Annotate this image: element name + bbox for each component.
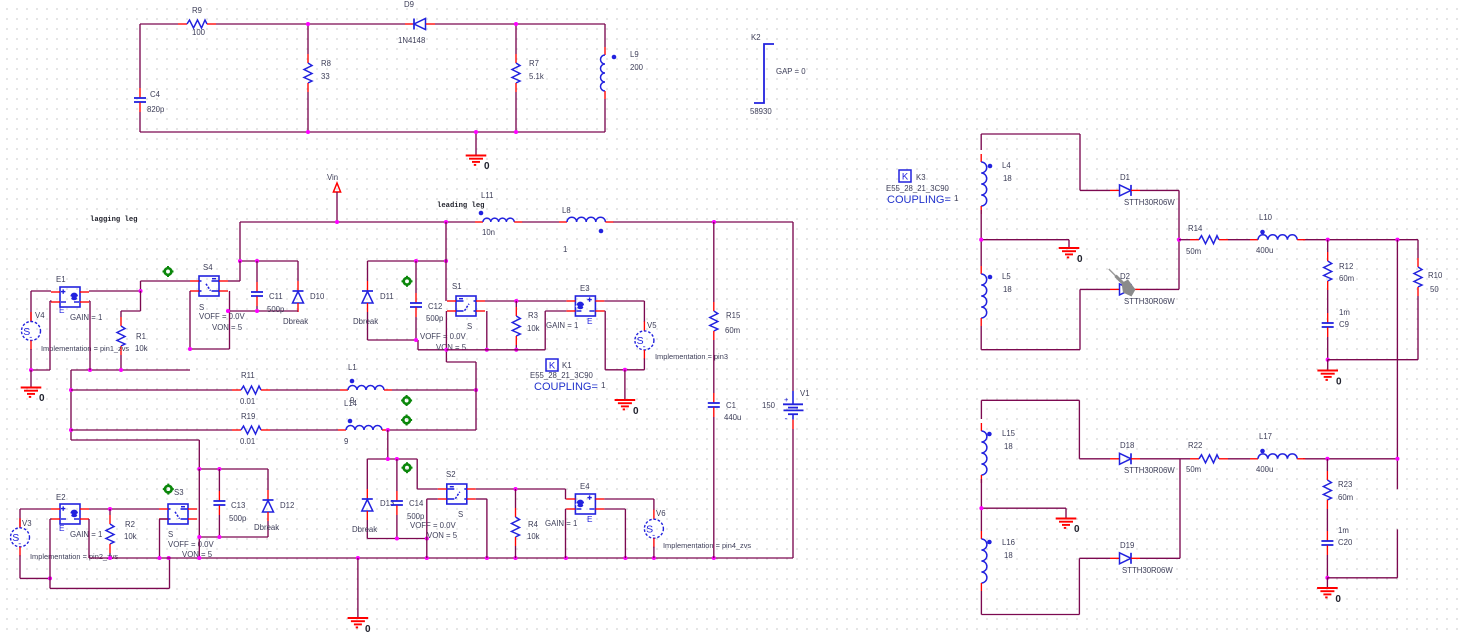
svg-text:VON = 5: VON = 5 <box>212 323 243 332</box>
junction R4 top <box>513 487 517 491</box>
svg-text:R9: R9 <box>192 6 202 15</box>
wire E1 out <box>89 290 141 292</box>
junction top-5 <box>514 130 518 134</box>
inductor L10 <box>1250 230 1305 240</box>
wire E1- down <box>50 301 52 370</box>
vsource V3 <box>11 518 30 556</box>
wire sec1 mid <box>981 210 1069 266</box>
label S1 S <box>467 322 472 331</box>
svg-text:Dbreak: Dbreak <box>352 525 377 534</box>
label S1 VOFF <box>420 332 467 341</box>
label R7 <box>529 59 539 68</box>
svg-text:C9: C9 <box>1339 320 1349 329</box>
junction L14 S2riser <box>386 428 390 432</box>
svg-text:GAIN = 1: GAIN = 1 <box>546 321 578 330</box>
svg-text:200: 200 <box>630 63 644 72</box>
wire sec2 top <box>981 400 1079 419</box>
label C13 500p <box>229 514 247 523</box>
svg-text:C20: C20 <box>1338 538 1353 547</box>
wire S3 right rail <box>198 469 200 558</box>
junction C13 bottom <box>217 535 221 539</box>
vcvs E3 <box>566 296 604 316</box>
svg-text:R8: R8 <box>321 59 331 68</box>
wire to E4 <box>565 489 568 499</box>
junction S2 cell 1 <box>386 457 390 461</box>
svg-text:L10: L10 <box>1259 213 1273 222</box>
wire V6 to bus <box>653 547 655 558</box>
wire left rail primary <box>70 370 72 440</box>
svg-text:VOFF = 0.0V: VOFF = 0.0V <box>410 521 457 530</box>
label R3 <box>528 311 538 320</box>
wire R15-C1 <box>713 340 715 393</box>
label S4 VOFF <box>199 312 246 321</box>
wire V5 to gnd <box>625 358 645 369</box>
wire E2 out row <box>89 508 159 510</box>
label 200 <box>630 63 644 72</box>
wire S4 ctrl left <box>190 291 230 349</box>
wire R2 bot <box>109 553 111 558</box>
svg-text:0: 0 <box>484 161 490 172</box>
label R22 <box>1188 441 1202 450</box>
label E1 <box>56 275 66 284</box>
svg-text:D19: D19 <box>1120 541 1134 550</box>
junction rail R19 <box>69 428 73 432</box>
junction bus S3L <box>157 556 161 560</box>
wire sec2 D18 jog <box>1079 400 1110 459</box>
label leading leg <box>437 202 484 210</box>
resistor R1 <box>117 317 125 355</box>
svg-text:VOFF = 0.0V: VOFF = 0.0V <box>199 312 246 321</box>
label GAP = 0 <box>776 67 806 76</box>
wire R15 leg top <box>713 222 715 302</box>
label C14 <box>409 499 424 508</box>
label L16 18 <box>1004 551 1013 560</box>
wire sec2 D19 jog <box>1079 558 1110 614</box>
label S2 VOFF <box>410 521 457 530</box>
label V5 impl <box>655 352 728 361</box>
svg-text:R23: R23 <box>1338 480 1352 489</box>
label E2 E <box>59 524 65 533</box>
label S4 S <box>199 303 204 312</box>
junction S2 cell 2 <box>395 457 399 461</box>
diode D12 <box>263 490 274 521</box>
label S3 <box>174 488 184 497</box>
svg-text:+: + <box>784 395 789 404</box>
wire L9 branch <box>604 24 606 132</box>
svg-text:R11: R11 <box>241 371 255 380</box>
label R10 50 <box>1430 285 1439 294</box>
svg-text:E: E <box>59 524 65 533</box>
wire D13-C14 top <box>367 458 417 460</box>
svg-text:GAIN = 1: GAIN = 1 <box>70 530 102 539</box>
label D12 Dbreak <box>254 523 279 532</box>
junction C12 top <box>414 259 418 263</box>
capacitor C4 <box>134 88 146 112</box>
svg-text:500p: 500p <box>407 512 425 521</box>
green marker S3 <box>163 484 174 495</box>
label D13 Dbreak <box>352 525 377 534</box>
wire left loop <box>139 24 141 132</box>
junction bus R15 <box>712 220 716 224</box>
svg-text:9: 9 <box>344 437 348 446</box>
svg-text:18: 18 <box>1004 551 1013 560</box>
label E3 E <box>587 317 593 326</box>
wire out2 row <box>1180 458 1397 460</box>
svg-text:10k: 10k <box>124 532 137 541</box>
junction bus S1-leg <box>444 220 448 224</box>
switch S3 <box>159 504 197 524</box>
label L4 18 <box>1003 174 1012 183</box>
ground 0 main <box>348 618 371 635</box>
wire R11 row <box>71 389 476 391</box>
svg-text:L8: L8 <box>562 206 571 215</box>
wire E1+ to V4 <box>31 291 51 322</box>
junction rowA R1 <box>119 368 123 372</box>
diode D9 <box>405 19 435 30</box>
label C1 <box>726 401 736 410</box>
wire D11-C12 top <box>368 260 447 262</box>
label R12 <box>1339 262 1353 271</box>
label C1 440u <box>724 413 741 422</box>
label R1 10k <box>135 344 148 353</box>
junction S1 riser top <box>444 259 448 263</box>
wire sec2 bottom <box>981 591 1079 615</box>
label 5.1k <box>529 72 544 81</box>
label E1 GAIN <box>70 313 102 322</box>
wire C13-D12 bottom <box>199 536 268 538</box>
svg-text:STTH30R06W: STTH30R06W <box>1124 466 1175 475</box>
wire R1 bottom <box>120 355 122 370</box>
svg-text:1: 1 <box>563 245 567 254</box>
svg-text:0: 0 <box>1335 594 1341 605</box>
svg-text:L4: L4 <box>1002 161 1011 170</box>
capacitor C9 <box>1322 313 1334 337</box>
label K1 core <box>530 371 594 380</box>
inductor L14 <box>338 419 390 430</box>
diode D13 <box>362 489 373 520</box>
svg-text:Dbreak: Dbreak <box>254 523 279 532</box>
resistor R3 <box>512 307 520 345</box>
junction top-3 <box>306 130 310 134</box>
ground 0 top <box>466 156 490 173</box>
svg-text:0: 0 <box>39 393 45 404</box>
junction E3 gnd <box>623 368 627 372</box>
svg-text:V5: V5 <box>647 321 657 330</box>
svg-text:E3: E3 <box>580 284 590 293</box>
svg-text:K: K <box>549 361 556 372</box>
svg-text:STTH30R06W: STTH30R06W <box>1124 297 1175 306</box>
ground 0 out1 <box>1317 371 1342 388</box>
junction E2 loop bus <box>167 556 171 560</box>
svg-text:0.01: 0.01 <box>240 437 255 446</box>
wire R7 branch <box>515 24 517 132</box>
svg-text:400u: 400u <box>1256 246 1273 255</box>
label E4 E <box>587 515 593 524</box>
inductor L11 <box>475 211 522 222</box>
svg-text:C11: C11 <box>269 292 283 301</box>
svg-text:18: 18 <box>1004 442 1013 451</box>
label D10 <box>310 292 325 301</box>
label C12 500p <box>426 314 444 323</box>
svg-text:V3: V3 <box>22 519 32 528</box>
svg-text:150: 150 <box>762 401 776 410</box>
wire R2 leg <box>109 509 111 515</box>
svg-text:R22: R22 <box>1188 441 1202 450</box>
svg-text:E: E <box>587 515 593 524</box>
svg-text:Implementation = pin3: Implementation = pin3 <box>655 352 728 361</box>
svg-text:leading leg: leading leg <box>437 202 484 210</box>
svg-text:5.1k: 5.1k <box>529 72 544 81</box>
wire bottom loop <box>140 131 605 133</box>
svg-text:1N4148: 1N4148 <box>398 36 425 45</box>
diode D1 <box>1110 185 1140 196</box>
wire C14 bot <box>396 515 398 539</box>
wire V1 top <box>792 222 794 391</box>
svg-text:S: S <box>199 303 204 312</box>
svg-text:C1: C1 <box>726 401 736 410</box>
wire R23-C20 <box>1326 509 1328 531</box>
wire cell to S2 <box>417 459 438 489</box>
label E2 GAIN <box>70 530 102 539</box>
label V4 impl <box>41 344 129 353</box>
label L15 <box>1002 429 1016 438</box>
wire top bus <box>240 221 793 223</box>
junction bus S2R <box>485 556 489 560</box>
svg-text:Implementation = pin2_zvs: Implementation = pin2_zvs <box>30 552 118 561</box>
wire C13-D12 top <box>199 468 268 470</box>
svg-text:E55_28_21_3C90: E55_28_21_3C90 <box>530 371 594 380</box>
junction bus E4R <box>623 556 627 560</box>
junction C14 bottom <box>395 536 399 540</box>
label D2 part <box>1124 297 1175 306</box>
vsource V1 battery <box>783 391 804 429</box>
svg-text:L1: L1 <box>348 363 357 372</box>
svg-text:R7: R7 <box>529 59 539 68</box>
svg-text:10k: 10k <box>135 344 148 353</box>
svg-text:lagging leg: lagging leg <box>90 216 137 224</box>
diode D10 <box>293 281 304 312</box>
wire R23 leg <box>1326 459 1328 471</box>
wire R4 leg <box>515 489 517 508</box>
wire C20 bot <box>1326 555 1328 578</box>
wire gnd stem V4 <box>30 370 32 388</box>
svg-text:R3: R3 <box>528 311 538 320</box>
junction C13 top <box>217 467 221 471</box>
junction bus Vin <box>335 220 339 224</box>
svg-text:R19: R19 <box>241 412 255 421</box>
junction C11 top <box>255 259 259 263</box>
junction C9 gnd <box>1326 358 1330 362</box>
svg-text:820p: 820p <box>147 105 165 114</box>
svg-text:D9: D9 <box>404 0 414 9</box>
green marker mid1 <box>401 395 412 406</box>
wire C11 bot leg <box>256 306 258 311</box>
wire S4 in from E1 <box>141 281 191 291</box>
wire E2+ to V3 <box>20 509 51 528</box>
svg-text:K: K <box>902 172 909 183</box>
label K2 <box>751 33 761 42</box>
junction R3 top <box>514 299 518 303</box>
wire D13 bot <box>366 520 368 539</box>
svg-text:GAIN = 1: GAIN = 1 <box>70 313 102 322</box>
switch S4 <box>190 276 228 296</box>
wire D13-C14 bottom <box>367 538 427 540</box>
wire D13 leg <box>366 459 368 489</box>
inductor L8 <box>559 217 613 233</box>
wire gnd stem out1 <box>1327 360 1329 371</box>
wire sec1 top <box>981 134 1080 150</box>
label 100 <box>192 28 206 37</box>
coupling K2 symbol <box>754 44 774 103</box>
junction bus S3rail <box>197 556 201 560</box>
junction V3 loop <box>48 576 52 580</box>
svg-text:D12: D12 <box>280 501 294 510</box>
label C13 <box>231 501 245 510</box>
label K3 coupling <box>887 194 959 206</box>
wire D2 out <box>1140 240 1179 290</box>
wire out1 bottom <box>1328 359 1418 361</box>
svg-text:VON = 5: VON = 5 <box>427 531 458 540</box>
label L9 <box>630 50 639 59</box>
wire S3 ctrl left <box>160 519 169 558</box>
svg-text:440u: 440u <box>724 413 741 422</box>
svg-text:1m: 1m <box>1338 526 1349 535</box>
inductor L16 <box>981 531 991 591</box>
svg-text:S3: S3 <box>174 488 184 497</box>
inductor L5 <box>981 266 992 326</box>
svg-text:E2: E2 <box>56 493 66 502</box>
wire ground bus <box>110 557 793 559</box>
label V3 impl <box>30 552 118 561</box>
svg-text:60m: 60m <box>1339 274 1354 283</box>
svg-text:C4: C4 <box>150 90 161 99</box>
label L1 <box>348 363 357 372</box>
svg-text:0: 0 <box>633 406 639 417</box>
junction C20 gnd <box>1325 576 1329 580</box>
wire R12-C9 <box>1327 290 1329 313</box>
svg-text:L11: L11 <box>481 191 493 200</box>
junction C13 riser <box>197 467 201 471</box>
wire D12 leg <box>267 469 269 490</box>
label C12 <box>428 302 442 311</box>
green marker S2 <box>402 462 413 473</box>
wire gnd stem out2 <box>1326 578 1328 588</box>
label C9 1m <box>1339 308 1350 317</box>
ground 0 sec1 <box>1059 248 1083 265</box>
junction rowA E1 <box>88 368 92 372</box>
wire top loop <box>140 23 605 25</box>
wire R19 row <box>71 429 476 431</box>
junction S3 rail C13bot <box>197 535 201 539</box>
junction C12 bottom <box>414 338 418 342</box>
label L8 <box>562 206 571 215</box>
label R10 <box>1428 271 1443 280</box>
wire rows bottom left <box>71 440 199 469</box>
junction S1 ctrl L <box>444 348 448 352</box>
wire C13 leg <box>218 469 220 491</box>
wire out1 row <box>1179 239 1418 241</box>
label S3 VOFF <box>168 540 215 549</box>
wire R4 bot <box>515 546 517 558</box>
svg-text:COUPLING=: COUPLING= <box>887 194 951 206</box>
label D1 <box>1120 173 1130 182</box>
junction top-1 <box>306 22 310 26</box>
wire bus to S1 <box>445 222 447 301</box>
label S2 VON <box>427 531 458 540</box>
vcvs E1 <box>51 287 89 307</box>
label L14 9 <box>344 437 348 446</box>
label E2 <box>56 493 66 502</box>
green marker S4 <box>163 266 174 277</box>
label R22 50m <box>1186 465 1201 474</box>
wire gnd stem main <box>357 558 359 618</box>
capacitor C1 <box>708 393 720 417</box>
wire S2 riser <box>387 430 389 459</box>
label R23 60m <box>1338 493 1353 502</box>
wire D10 leg <box>297 261 299 281</box>
label S1 <box>452 282 462 291</box>
junction top-4 <box>474 130 478 134</box>
wire D11-C12 bottom <box>368 340 447 350</box>
label V6 impl <box>663 541 751 550</box>
svg-text:R12: R12 <box>1339 262 1353 271</box>
wire S2 ctrl right <box>476 499 487 558</box>
vsource V6 <box>644 510 663 548</box>
wire E4 out to V6 <box>604 499 654 510</box>
label K1 <box>562 361 572 370</box>
label L5 <box>1002 272 1011 281</box>
wire D19 out <box>1140 459 1180 559</box>
svg-text:R15: R15 <box>726 311 741 320</box>
capacitor C14 <box>391 491 403 515</box>
label E3 GAIN <box>546 321 578 330</box>
wire E3- down <box>604 311 625 370</box>
wire V3 bottom <box>20 555 50 578</box>
wire D11 bot <box>367 312 369 340</box>
junction R2 top <box>108 507 112 511</box>
ground 0 out2 <box>1317 588 1341 605</box>
wire out2 bottom <box>1327 529 1397 577</box>
junction out1 rail <box>1395 238 1399 242</box>
label D9 <box>404 0 414 9</box>
svg-text:1: 1 <box>601 381 606 390</box>
junction D13C14 right <box>425 536 429 540</box>
svg-text:R4: R4 <box>528 520 539 529</box>
svg-text:R10: R10 <box>1428 271 1443 280</box>
resistor R19 <box>232 426 270 434</box>
svg-text:V1: V1 <box>800 389 810 398</box>
wire sec2 mid <box>981 479 1066 531</box>
svg-text:500p: 500p <box>229 514 247 523</box>
label C20 1m <box>1338 526 1349 535</box>
label L10 400u <box>1256 246 1273 255</box>
junction bus C1 <box>712 556 716 560</box>
svg-text:S: S <box>467 322 472 331</box>
svg-text:0: 0 <box>1074 524 1080 535</box>
svg-text:VOFF = 0.0V: VOFF = 0.0V <box>420 332 467 341</box>
wire E2- loop <box>50 519 170 588</box>
svg-text:E55_28_21_3C90: E55_28_21_3C90 <box>886 184 950 193</box>
label V1 150 <box>762 401 776 410</box>
svg-text:E: E <box>59 306 65 315</box>
wire R8 branch <box>307 24 309 132</box>
wire R3 bot <box>515 345 517 350</box>
label R4 10k <box>527 532 540 541</box>
svg-text:S4: S4 <box>203 263 213 272</box>
svg-text:R14: R14 <box>1188 224 1203 233</box>
junction S4 riser <box>238 259 242 263</box>
svg-text:L16: L16 <box>1002 538 1015 547</box>
